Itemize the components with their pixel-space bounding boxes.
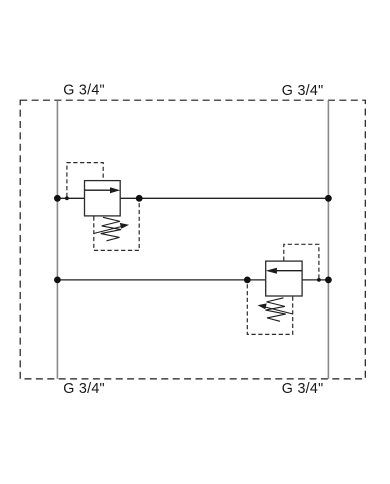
svg-text:G 3/4": G 3/4" (282, 83, 324, 99)
node: RV1 pilot tap (small dot) (65, 196, 69, 200)
RV2 pilot line (dashed, from upstream node to box top) (284, 244, 319, 278)
RV2 flow arrow (closed position, pointing left) (266, 268, 302, 274)
RV1 flow arrow (closed position, pointing right) (85, 187, 121, 193)
RV2 spring drain line (dashed, to downstream node) (247, 281, 292, 335)
RV1 spring drain line (dashed, to downstream node) (94, 199, 139, 250)
RV1 spring adjustment arrow (94, 223, 129, 234)
port line P1 (left vertical) (56, 100, 58, 379)
node: RV2 pilot tap (small dot) (317, 278, 321, 282)
RV2 spring (266, 298, 286, 322)
RV1 pilot line (dashed, from upstream node to box top) (67, 163, 103, 197)
node: junction dot lower-left (P1 / line 2) (54, 277, 61, 284)
node: junction dot lower-right (P2 / line 2) (325, 277, 332, 284)
wire: upper main line (57, 197, 328, 199)
RV2 spring adjustment arrow (258, 303, 293, 314)
node: RV1 drain junction (136, 195, 143, 202)
port line P2 (right vertical) (327, 100, 329, 379)
wire: lower main line (57, 279, 328, 281)
node: junction dot upper-right (P2 / line 1) (325, 195, 332, 202)
node: RV2 drain junction (244, 277, 251, 284)
RV1 spring (101, 217, 121, 241)
svg-text:G 3/4": G 3/4" (282, 381, 324, 397)
relief valve RV1 body (85, 181, 121, 216)
enclosure border (dashed manifold outline) (20, 100, 365, 379)
svg-text:G 3/4": G 3/4" (63, 83, 105, 99)
svg-text:G 3/4": G 3/4" (63, 381, 105, 397)
relief valve RV2 body (266, 261, 302, 296)
node: junction dot upper-left (P1 / line 1) (54, 195, 61, 202)
